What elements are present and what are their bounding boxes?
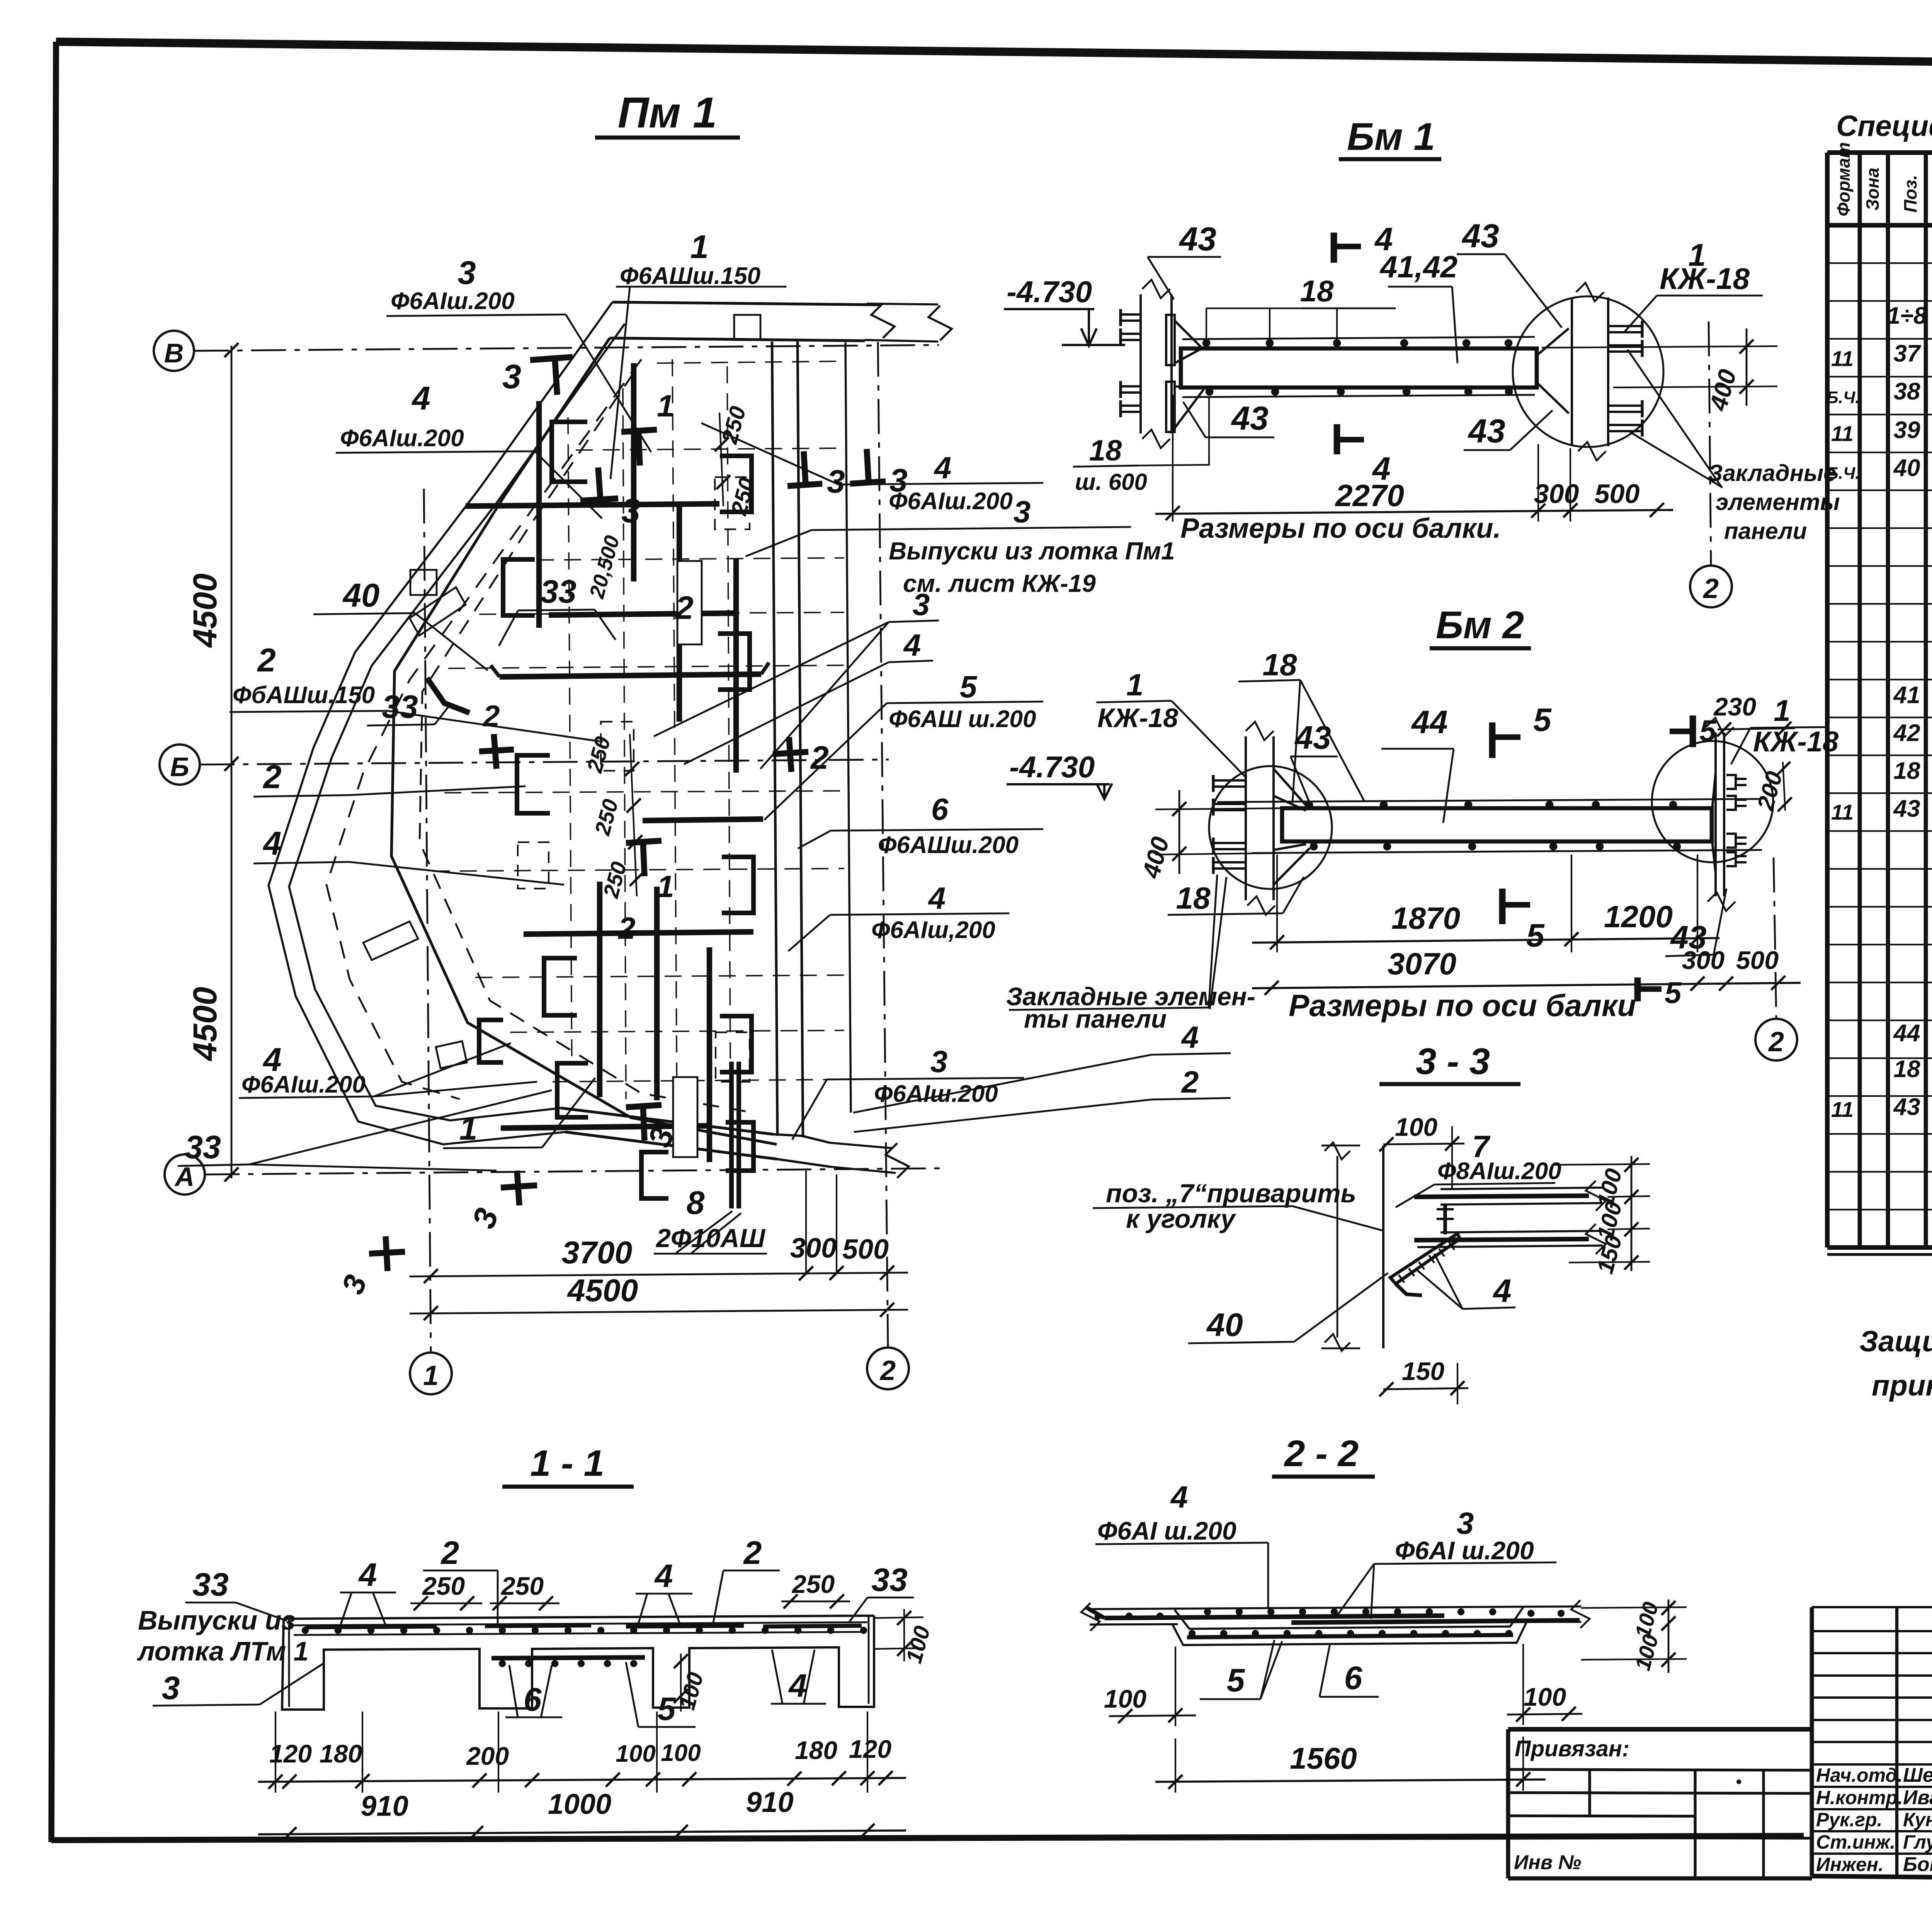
bottom band upper edge (561, 1108, 774, 1134)
svg-text:43: 43 (1231, 400, 1269, 437)
Бм2 dim 3070 (1252, 984, 1719, 988)
rebar bar b4 (501, 1126, 709, 1128)
Бм1 dim 2270 300 500 (1155, 510, 1673, 514)
svg-text:4500: 4500 (187, 987, 224, 1061)
svg-text:4: 4 (262, 825, 281, 862)
svg-text:3: 3 (457, 255, 476, 291)
slab edge top (610, 338, 865, 341)
svg-text:4: 4 (903, 628, 921, 662)
section mark 3 bottom left b (386, 1236, 388, 1271)
svg-text:33: 33 (192, 1566, 228, 1603)
beam Бм1 bottom rebar dots (1206, 388, 1214, 396)
svg-text:КЖ-18: КЖ-18 (1660, 262, 1750, 296)
Бм1 left gussets (1175, 321, 1202, 348)
section mark T bottom pair (626, 1105, 662, 1107)
svg-text:300: 300 (790, 1233, 837, 1264)
svg-text:2: 2 (617, 911, 636, 945)
svg-text:Б: Б (170, 752, 189, 782)
Бм1 axis circle 2 (1690, 566, 1732, 607)
Бм2 left plate anchors (1213, 779, 1246, 782)
section mark 3 top (530, 357, 573, 360)
svg-text:43: 43 (1893, 795, 1920, 822)
svg-text:Бондарь: Бондарь (1903, 1853, 1932, 1876)
rebar hook h9 (722, 857, 753, 913)
1-1 left edge double (288, 1620, 290, 1707)
svg-text:33: 33 (871, 1562, 907, 1598)
3-3 upper rebar bar (1414, 1196, 1589, 1197)
svg-text:11: 11 (1831, 800, 1854, 824)
svg-text:39: 39 (1894, 417, 1920, 444)
svg-text:3: 3 (621, 491, 640, 530)
svg-text:1÷8: 1÷8 (1887, 303, 1927, 329)
svg-text:Размеры по оси балки: Размеры по оси балки (1289, 988, 1636, 1023)
2-2 trough (1175, 1607, 1523, 1629)
column strip right line (798, 342, 803, 1137)
rebar bar v4 (733, 558, 739, 773)
Бм1 right gussets (1537, 328, 1569, 355)
svg-text:Ф6АШш.150: Ф6АШш.150 (620, 263, 760, 289)
svg-text:100: 100 (1104, 1684, 1146, 1713)
bottom band lower edge (565, 1132, 777, 1159)
svg-text:Глуменко: Глуменко (1903, 1831, 1932, 1853)
wall opening 1 (410, 587, 466, 636)
rebar hook h6 (479, 1020, 503, 1062)
svg-text:500: 500 (1595, 479, 1640, 509)
wall niche bottom (436, 1041, 467, 1068)
svg-text:Ф8АIш.200: Ф8АIш.200 (1437, 1158, 1561, 1185)
svg-text:41,42: 41,42 (1379, 250, 1458, 284)
svg-text:230: 230 (1713, 692, 1756, 721)
beam Бм2 top slab line (1217, 799, 1762, 802)
svg-text:100: 100 (661, 1740, 701, 1766)
spec table row lines (1827, 262, 1932, 264)
1-1 dim 100 mid (680, 1654, 682, 1711)
spec table header separator (1827, 223, 1932, 228)
1-1 slab profile (282, 1616, 874, 1710)
svg-text:лотка ЛТм 1: лотка ЛТм 1 (137, 1636, 309, 1666)
3-3 slab upper lines (1440, 1188, 1603, 1189)
svg-text:6: 6 (931, 792, 949, 826)
svg-text:Ф6АI ш.200: Ф6АI ш.200 (1097, 1516, 1236, 1545)
svg-text:11: 11 (1831, 347, 1854, 371)
svg-text:11: 11 (1831, 1097, 1854, 1122)
svg-text:2: 2 (1181, 1065, 1199, 1099)
section mark 1 bottom (626, 841, 662, 843)
svg-text:18: 18 (1176, 881, 1211, 915)
svg-text:43: 43 (1179, 221, 1216, 258)
bent bar at 33 (427, 678, 469, 713)
outer wall inner face (289, 324, 774, 1134)
beam Бм1 bottom line (1182, 395, 1535, 397)
3-3 angle bracket (1390, 1234, 1460, 1284)
axis circle 2 (867, 1348, 909, 1389)
rebar hook h2 (503, 559, 535, 615)
svg-text:ФбАШш.150: ФбАШш.150 (233, 682, 375, 709)
svg-text:Б.Ч.: Б.Ч. (1827, 388, 1860, 407)
beam Бм2 body (1282, 808, 1712, 841)
svg-text:1: 1 (657, 869, 674, 904)
1-1 dim extension lines (275, 1711, 276, 1793)
svg-text:Ст.инж.: Ст.инж. (1816, 1831, 1895, 1853)
axis line 2 (878, 342, 888, 1348)
svg-text:250: 250 (791, 1570, 835, 1598)
svg-text:4: 4 (1493, 1273, 1512, 1309)
svg-text:40: 40 (342, 577, 380, 614)
beam Бм2 bottom rebar dots (1310, 843, 1318, 851)
1-1 top rebar dots (302, 1627, 309, 1634)
Бм2 section mark 5 top (1489, 722, 1496, 758)
rebar hook h5 (557, 1063, 588, 1117)
svg-text:18: 18 (1300, 274, 1334, 308)
1-1 dim line 1 (258, 1778, 906, 1782)
svg-text:КЖ-18: КЖ-18 (1753, 726, 1839, 758)
svg-text:Ф6АШ ш.200: Ф6АШ ш.200 (889, 706, 1036, 733)
2-2 thick bar B (1291, 1620, 1580, 1623)
section mark 2 right (789, 737, 791, 772)
svg-text:2: 2 (1768, 1027, 1784, 1057)
axis circle Б (160, 744, 200, 785)
wall opening 2 (363, 921, 418, 960)
dim extension lines (805, 1171, 807, 1275)
1-1 mid bottom bar (492, 1657, 645, 1658)
svg-text:Инв №: Инв № (1514, 1851, 1581, 1874)
svg-text:500: 500 (1736, 946, 1779, 974)
Бм2 right plate (1714, 733, 1717, 896)
svg-text:4: 4 (934, 450, 952, 485)
привязан block border (1508, 1727, 1812, 1732)
svg-text:2270: 2270 (1335, 478, 1404, 513)
Бм2 dim 300 500 (1719, 983, 1801, 984)
rebar bar v6 (707, 947, 712, 1162)
axis line Б (200, 760, 889, 765)
interior dash lines (576, 448, 844, 450)
svg-text:панели: панели (1724, 518, 1807, 544)
3-3 hook at bracket (1396, 1284, 1422, 1295)
svg-text:100: 100 (616, 1740, 655, 1767)
svg-text:2: 2 (810, 739, 829, 776)
svg-text:Зона: Зона (1862, 168, 1883, 211)
Бм2 left detail circle (1209, 766, 1332, 889)
svg-text:100: 100 (1395, 1113, 1437, 1141)
svg-text:Ф6АIш.200: Ф6АIш.200 (340, 425, 464, 452)
3-3 anchor vertical (1443, 1205, 1447, 1234)
Бм2 left plate (1245, 736, 1247, 900)
svg-text:100: 100 (1524, 1683, 1566, 1711)
svg-text:элементы: элементы (1716, 489, 1840, 515)
section mark 3 bottom left (517, 1171, 519, 1205)
extra thick bars (549, 613, 736, 615)
top slab band top edge (612, 302, 881, 305)
3-3 wall vertical line (1382, 1146, 1384, 1348)
svg-text:1: 1 (657, 389, 674, 423)
rebar hook h4 (544, 958, 577, 1015)
1-1 dim 100 right (903, 1609, 905, 1661)
svg-text:3: 3 (162, 1670, 180, 1706)
Бм2 axis circle 2 (1755, 1019, 1797, 1061)
svg-text:180: 180 (320, 1739, 362, 1768)
section mark 3 mid (580, 498, 618, 501)
svg-text:2: 2 (482, 699, 500, 733)
svg-text:6: 6 (524, 1681, 542, 1718)
beam Бм2 top rebar dots (1305, 801, 1313, 809)
svg-text:33: 33 (185, 1129, 221, 1165)
svg-text:1870: 1870 (1391, 901, 1460, 935)
svg-text:300: 300 (1682, 946, 1725, 974)
axis line 1 (424, 489, 431, 1353)
rebar hook h12 (641, 1152, 668, 1198)
svg-text:3: 3 (1457, 1506, 1474, 1540)
rebar hook h10 (720, 1016, 752, 1072)
Бм1 left embed rects (1166, 315, 1175, 365)
svg-text:44: 44 (1411, 704, 1447, 740)
svg-text:-4.730: -4.730 (1009, 750, 1095, 784)
svg-text:Выпуски из: Выпуски из (138, 1605, 295, 1635)
dim line 3700/300/500 (410, 1273, 908, 1276)
svg-text:4: 4 (654, 1558, 673, 1594)
svg-text:Иванов: Иванов (1903, 1786, 1932, 1809)
rebar bar v3 (677, 506, 682, 722)
svg-text:Ф6АШш.200: Ф6АШш.200 (878, 832, 1019, 858)
svg-text:Размеры по оси балки.: Размеры по оси балки. (1180, 513, 1501, 544)
svg-text:поз. „7“приварить: поз. „7“приварить (1106, 1179, 1356, 1208)
svg-text:180: 180 (795, 1736, 837, 1764)
2-2 slab top lines (1090, 1606, 1581, 1609)
Бм2 right plate anchors (1726, 775, 1736, 789)
svg-text:1 - 1: 1 - 1 (530, 1443, 604, 1484)
2-2 trough bottom bar (1187, 1635, 1513, 1637)
svg-text:910: 910 (361, 1790, 408, 1822)
svg-text:3: 3 (930, 1044, 948, 1079)
svg-text:Бм 2: Бм 2 (1436, 603, 1524, 647)
Бм1 left plate (1139, 294, 1142, 433)
svg-text:2: 2 (675, 590, 694, 626)
vertical dimension line 4500/4500 (231, 346, 233, 1178)
svg-text:18: 18 (1894, 1056, 1920, 1083)
svg-text:33: 33 (382, 688, 418, 725)
svg-text:43: 43 (1893, 1094, 1920, 1120)
2-2 dim 1560 (1155, 1779, 1546, 1782)
svg-text:37: 37 (1894, 340, 1921, 367)
rebar hook h8 (718, 634, 750, 690)
svg-text:43: 43 (1461, 218, 1499, 255)
Бм2 section mark 5 top right (1690, 716, 1696, 747)
bottom band column foot (774, 1134, 830, 1143)
svg-text:4500: 4500 (187, 573, 224, 648)
svg-text:Н.контр.: Н.контр. (1816, 1787, 1903, 1808)
Бм1 section mark 4 top (1331, 233, 1337, 263)
svg-text:Шейко: Шейко (1903, 1764, 1932, 1786)
right edge vertical (845, 342, 851, 1113)
3-3 dim 100 100 150 right (1631, 1156, 1633, 1271)
svg-text:4: 4 (411, 380, 430, 417)
svg-text:150: 150 (1402, 1357, 1444, 1385)
svg-text:В: В (164, 338, 184, 368)
rebar bar b1 (466, 504, 719, 506)
svg-text:4: 4 (1170, 1480, 1188, 1514)
svg-text:Выпуски из лотка Пм1: Выпуски из лотка Пм1 (889, 537, 1175, 565)
Бм1 left plate anchors (1121, 313, 1141, 316)
svg-text:1: 1 (1126, 668, 1144, 702)
column head rect (734, 315, 760, 340)
Бм2 dim 400 (1155, 808, 1282, 809)
rebar bar v2 (536, 401, 542, 628)
svg-text:Рук.гр.: Рук.гр. (1816, 1809, 1883, 1830)
rebar bar b5 (643, 819, 763, 821)
1-1 slab top lines (284, 1616, 874, 1619)
beam Бм in plan top (677, 561, 702, 644)
section mark 3 right a (787, 484, 822, 486)
svg-text:1560: 1560 (1290, 1741, 1357, 1775)
beam Бм2 bottom line (1252, 850, 1762, 853)
3-3 lower slab lines (1440, 1231, 1603, 1232)
svg-text:-4.730: -4.730 (1007, 275, 1092, 309)
svg-text:250: 250 (422, 1572, 465, 1600)
Бм2 section mark 5 low left (1634, 977, 1641, 1001)
axis circle В (154, 331, 194, 371)
svg-text:Формат: Формат (1833, 142, 1854, 216)
svg-text:2: 2 (879, 1355, 896, 1386)
Бм1 right detail circle (1513, 296, 1663, 447)
svg-text:1000: 1000 (548, 1788, 612, 1820)
svg-text:18: 18 (1263, 648, 1297, 682)
section mark 2 left (494, 734, 497, 769)
Бм1 right plate (1571, 297, 1573, 446)
svg-text:Ф6АIш.200: Ф6АIш.200 (889, 488, 1013, 515)
sheet frame bottom border (51, 1836, 1804, 1840)
rebar bar b2 with hooks (500, 674, 761, 677)
svg-text:6: 6 (1344, 1660, 1363, 1696)
svg-text:Пм 1: Пм 1 (618, 88, 717, 137)
svg-text:5: 5 (658, 1691, 676, 1727)
beam Бм1 body (1181, 348, 1537, 387)
3-3 left reference line (1337, 1156, 1338, 1338)
svg-text:принят для плит - 15мм, для: принят для плит - 15мм, для балок - 25мм… (1872, 1369, 1932, 1402)
Бм2 right detail circle (1652, 741, 1773, 862)
svg-text:Кунцевич: Кунцевич (1903, 1809, 1932, 1830)
rebar hook h1 (552, 422, 587, 482)
small dim 250 group top (719, 413, 723, 506)
svg-text:4: 4 (1181, 1020, 1199, 1054)
svg-text:41: 41 (1893, 682, 1920, 709)
rebar bar v1 (631, 363, 636, 581)
beam Бм1 top rebar dots (1202, 339, 1211, 347)
svg-text:33: 33 (540, 573, 576, 610)
wall niche top (410, 570, 437, 595)
sheet frame top border (56, 42, 1932, 70)
svg-text:2: 2 (440, 1535, 459, 1571)
Бм2 right gussets (1712, 773, 1716, 813)
svg-text:4: 4 (928, 881, 946, 915)
Бм1 right plate anchors (1608, 325, 1642, 327)
rebar hook h3 (517, 755, 550, 813)
Бм1 section mark 4 bottom (1334, 424, 1340, 454)
svg-text:2: 2 (262, 759, 281, 795)
svg-text:43: 43 (1468, 413, 1505, 450)
title block signature grid (1812, 1606, 1932, 1608)
svg-text:Нач.отд.: Нач.отд. (1816, 1764, 1903, 1786)
section mark 1 top (621, 430, 657, 432)
Бм2 left gussets (1274, 769, 1308, 807)
svg-text:1: 1 (1774, 693, 1790, 727)
2-2 thick bar A (1104, 1616, 1444, 1618)
2-2 dots (1189, 1630, 1196, 1637)
1-1 top rebar bars (305, 1626, 437, 1627)
2-2 left break (1081, 1603, 1100, 1631)
svg-text:1: 1 (423, 1360, 439, 1391)
svg-text:910: 910 (746, 1786, 793, 1818)
svg-text:3: 3 (502, 357, 521, 396)
sheet frame left border (51, 42, 56, 1842)
svg-text:Ф6АIш,200: Ф6АIш,200 (871, 917, 995, 943)
beam Бм in plan bottom (673, 1077, 697, 1157)
axis line В (194, 345, 939, 351)
3-3 lower rebar bar (1414, 1239, 1589, 1240)
Бм2 dim 1870 1200 (1252, 938, 1719, 943)
svg-text:2 - 2: 2 - 2 (1284, 1433, 1359, 1474)
svg-text:3: 3 (913, 587, 930, 622)
outer wall outer face (269, 302, 777, 1159)
svg-text:Защитный слой бетона до р: Защитный слой бетона до рабочей армотуры (1859, 1325, 1932, 1358)
spec table outer border (1827, 150, 1932, 155)
Бм2 section mark 5 bottom (1499, 889, 1506, 924)
svg-text:Бм 1: Бм 1 (1347, 115, 1435, 158)
axis circle А (165, 1154, 205, 1195)
top band break (871, 303, 895, 338)
svg-text:120: 120 (849, 1735, 891, 1763)
extra interior dashes (479, 612, 844, 614)
svg-text:4: 4 (358, 1557, 377, 1593)
svg-text:Ф6АI ш.200: Ф6АI ш.200 (1395, 1536, 1534, 1565)
svg-text:Закладные: Закладные (1708, 460, 1836, 486)
svg-text:КЖ-18: КЖ-18 (1097, 703, 1178, 733)
svg-text:Ф6АIш.200: Ф6АIш.200 (874, 1081, 998, 1107)
svg-text:2: 2 (1702, 573, 1719, 604)
rebar bar v5 (597, 882, 602, 1097)
svg-text:Привязан:: Привязан: (1515, 1736, 1629, 1761)
svg-text:300: 300 (1534, 479, 1579, 509)
Бм1 dim 400 (1542, 346, 1777, 348)
2-2 dim 100 100 right side (1668, 1599, 1670, 1673)
svg-text:5: 5 (1533, 702, 1552, 738)
svg-text:2: 2 (257, 642, 276, 679)
small dashed boxes (715, 477, 750, 529)
svg-text:5: 5 (1227, 1662, 1245, 1698)
svg-text:3700: 3700 (562, 1235, 632, 1270)
spec table column lines (1858, 153, 1862, 1247)
svg-text:44: 44 (1893, 1020, 1920, 1047)
dim line 4500 bottom (410, 1310, 908, 1314)
svg-text:42: 42 (1893, 720, 1920, 746)
svg-text:18: 18 (1089, 434, 1122, 467)
rebar hook h7 (720, 456, 752, 512)
svg-text:Поз.: Поз. (1900, 175, 1920, 212)
svg-text:5: 5 (960, 670, 978, 704)
svg-text:1: 1 (690, 229, 708, 265)
svg-text:см. лист КЖ-19: см. лист КЖ-19 (903, 569, 1096, 597)
svg-text:40: 40 (1893, 455, 1920, 481)
1-1 dim line 2 (258, 1830, 906, 1834)
slab edge left (391, 338, 777, 1144)
3-3 weld ticks (1399, 1275, 1404, 1283)
svg-text:к уголку: к уголку (1126, 1204, 1236, 1234)
rebar hook h11 (726, 1122, 753, 1171)
svg-text:Ф6АIш.200: Ф6АIш.200 (241, 1071, 366, 1098)
column strip left line (772, 342, 777, 1136)
svg-text:5: 5 (1526, 917, 1545, 953)
axis line А (205, 1168, 943, 1174)
svg-text:ш. 600: ш. 600 (1075, 469, 1147, 495)
svg-text:1: 1 (459, 1110, 478, 1147)
